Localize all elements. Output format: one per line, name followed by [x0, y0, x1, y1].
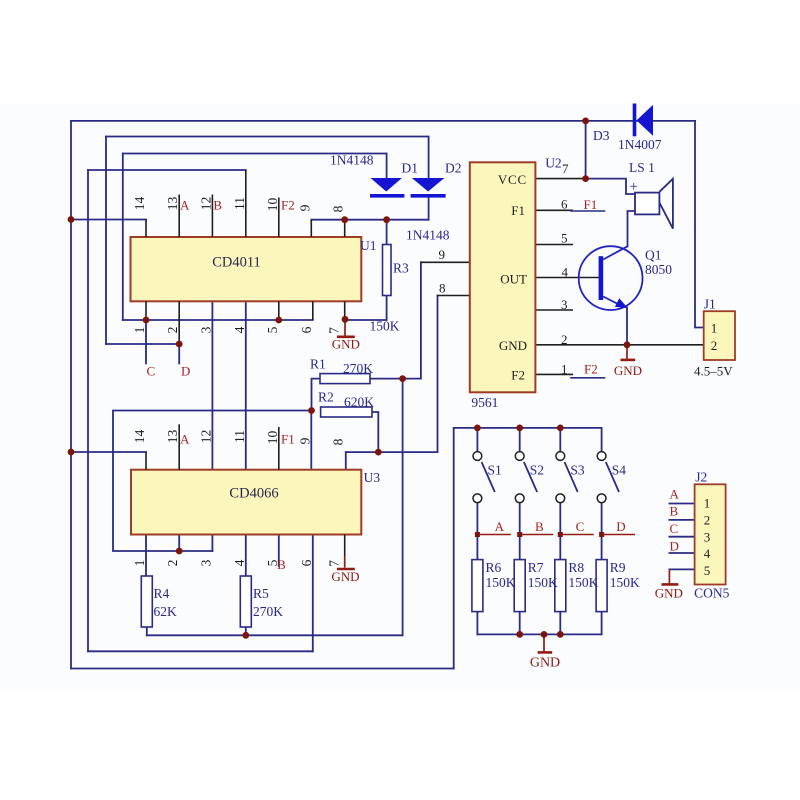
svg-text:GND: GND — [331, 569, 359, 584]
svg-text:150K: 150K — [370, 319, 400, 334]
svg-text:1N4007: 1N4007 — [618, 137, 662, 152]
wire R4-R5 bottom rail to U2pin9 net — [147, 634, 403, 636]
wire loop1 bottom horizontal — [71, 668, 454, 670]
svg-text:C: C — [670, 521, 679, 536]
svg-text:C: C — [576, 519, 585, 534]
ground symbol at U3 pin7 — [337, 556, 355, 569]
svg-text:D: D — [616, 519, 625, 534]
wire loop2 top horizontal to D2 — [106, 137, 429, 178]
wire loop1 top horizontal — [71, 120, 695, 122]
svg-text:GND: GND — [655, 586, 683, 601]
svg-text:8: 8 — [439, 281, 446, 296]
wire Q1 emitter to ground line — [626, 308, 628, 345]
U1 pin 6 stub — [312, 301, 314, 320]
U1 pin 9 stub — [310, 220, 312, 237]
svg-text:4.5–5V: 4.5–5V — [694, 364, 733, 379]
IC U1 CD4011 body — [131, 237, 362, 301]
resistor R4 62K body — [141, 576, 152, 627]
wire loop1 riser to switch rail — [453, 428, 455, 669]
svg-text:62K: 62K — [154, 604, 178, 619]
wire loop3 top horizontal to D1 — [123, 154, 387, 178]
svg-text:R9: R9 — [610, 560, 626, 575]
svg-text:D: D — [670, 538, 679, 553]
diode D2 1N4148 — [411, 178, 446, 196]
wire loop3 vertical — [122, 154, 124, 321]
wire loop2 vertical — [105, 137, 107, 345]
wire R8 bottom lead — [559, 612, 561, 635]
wire CD4066 pin3 stub — [211, 535, 213, 552]
switch S3 — [556, 452, 578, 503]
svg-text:3: 3 — [704, 529, 711, 544]
wire U2 pin7 line black part — [535, 178, 585, 180]
svg-text:F1: F1 — [281, 432, 295, 447]
connector J1 body — [704, 311, 735, 360]
svg-text:8: 8 — [331, 438, 346, 445]
svg-text:R8: R8 — [568, 560, 584, 575]
wire R6 bottom lead — [476, 612, 478, 635]
svg-text:13: 13 — [165, 430, 180, 444]
svg-text:4: 4 — [704, 546, 711, 561]
svg-text:150K: 150K — [528, 575, 558, 590]
svg-text:F2: F2 — [511, 367, 525, 382]
svg-text:2: 2 — [561, 332, 568, 347]
resistor R5 270K body — [240, 576, 251, 627]
wire R7 bottom lead — [519, 612, 521, 635]
U1 pin 8 stub — [344, 220, 346, 237]
wire S2 bottom to R7 — [519, 503, 521, 560]
wire speaker minus to Q1 collector — [628, 211, 636, 246]
wire switch top rail — [454, 427, 602, 429]
node U1 pin2 loop2 — [176, 341, 183, 348]
svg-text:J2: J2 — [695, 470, 707, 485]
svg-text:270K: 270K — [343, 361, 373, 376]
resistor R9 150K body — [596, 560, 607, 612]
svg-text:A: A — [670, 487, 680, 502]
svg-text:R5: R5 — [253, 586, 269, 601]
svg-text:B: B — [535, 519, 544, 534]
node U1 pin5 on rail — [275, 317, 282, 324]
wire R5 bottom lead — [245, 627, 247, 635]
svg-text:3: 3 — [198, 559, 213, 566]
svg-text:1N4148: 1N4148 — [330, 153, 374, 168]
wire loop1 left vertical (VCC net) — [70, 121, 72, 669]
svg-text:150K: 150K — [486, 575, 516, 590]
svg-text:5: 5 — [561, 231, 568, 246]
wire CD4011 pin3 to CD4066 pin12 — [211, 301, 213, 469]
node S3 rail — [557, 425, 564, 432]
svg-text:A: A — [180, 432, 190, 447]
svg-text:7: 7 — [327, 327, 342, 334]
wire net label A underline — [477, 534, 510, 536]
svg-text:U1: U1 — [360, 238, 377, 253]
node R5 bottom — [242, 632, 249, 639]
wire R1 left lead — [312, 379, 321, 411]
svg-text:D: D — [181, 364, 190, 379]
wire J2 pin3 lead net C — [669, 536, 694, 538]
svg-text:CD4011: CD4011 — [212, 255, 261, 271]
U1 pin 13 stub — [178, 195, 180, 238]
U1 pin 14 stub — [145, 220, 147, 238]
wire loop2 bottom to CD4011 pin2 — [106, 344, 179, 364]
U3 pin 13 stub — [178, 424, 180, 469]
diode D1 1N4148 — [370, 178, 404, 196]
node label C attach — [558, 532, 563, 537]
wire S3 top stub — [559, 428, 561, 451]
wire CD4066 pin8 stub — [345, 452, 347, 470]
wire U2 pin1 line — [535, 373, 572, 375]
svg-text:9: 9 — [297, 437, 312, 444]
svg-text:OUT: OUT — [500, 271, 527, 286]
svg-text:11: 11 — [232, 197, 247, 210]
node label B attach — [517, 532, 522, 537]
svg-text:2: 2 — [165, 560, 180, 567]
svg-text:LS 1: LS 1 — [629, 160, 655, 175]
svg-text:U3: U3 — [364, 470, 381, 485]
node U1 pin7 GND R3 — [342, 316, 349, 323]
switch S1 — [473, 452, 495, 503]
resistor R2 620K body — [321, 407, 372, 417]
wire CD4066 pin9 stub — [310, 411, 312, 470]
svg-text:14: 14 — [132, 197, 147, 211]
wire U2 pin3 line — [535, 309, 572, 311]
U3 pin 14 stub — [145, 452, 147, 470]
svg-text:9: 9 — [439, 247, 446, 262]
svg-text:GND: GND — [614, 363, 642, 378]
wire R2 right lead — [372, 412, 378, 452]
wire U2 pin9 line — [421, 261, 470, 263]
node R2 right U3 pin8 — [375, 449, 382, 456]
node GND stub on resistor rail — [541, 631, 548, 638]
wire resistor bottom rail — [477, 633, 601, 635]
wire U2 pin4 line to Q1 base — [535, 277, 600, 279]
wire junction R2R to CD4066 pin8 and U2 pin8 riser — [346, 296, 438, 453]
svg-text:S1: S1 — [488, 463, 502, 478]
wire CD4066 pin5 stub node B — [278, 535, 280, 567]
svg-text:3: 3 — [198, 326, 213, 333]
svg-text:4: 4 — [562, 265, 569, 280]
svg-text:CON5: CON5 — [694, 586, 730, 601]
ground symbol at U1 pin7 — [337, 319, 355, 337]
wire loop3 bottom rail CD4011 pins 1-5-6 — [123, 319, 313, 321]
U1 pin 5 stub — [278, 301, 280, 320]
svg-text:6: 6 — [299, 326, 314, 333]
svg-text:8050: 8050 — [645, 262, 672, 277]
U1 pin 11 stub — [245, 170, 247, 237]
wire S4 bottom to R9 — [601, 503, 603, 560]
svg-text:R6: R6 — [486, 560, 502, 575]
svg-text:1: 1 — [132, 560, 147, 567]
node U1 pin1 on rail — [143, 317, 150, 324]
wire J2 pin5 lead to GND — [669, 568, 694, 570]
svg-text:10: 10 — [265, 198, 280, 212]
wire R1 right lead to U2 pin9 riser — [370, 262, 421, 378]
wire CD4066 pin4 to R5 — [245, 535, 247, 577]
wire D2 cathode drop — [428, 198, 430, 220]
node R1 right — [399, 375, 406, 382]
svg-text:2: 2 — [165, 327, 180, 334]
svg-text:12: 12 — [198, 197, 213, 211]
wire loop4 bottom horizontal to CD4066 pin6 — [88, 650, 313, 652]
svg-text:+: + — [630, 179, 638, 195]
U3 pin 7 stub — [344, 535, 346, 557]
svg-text:S2: S2 — [530, 463, 544, 478]
svg-text:S3: S3 — [570, 463, 585, 478]
transistor Q1 8050 — [579, 246, 643, 310]
wire R3 bottom lead to GND rail — [345, 296, 387, 321]
wire CD4011 pin1 below rail to node C — [145, 320, 147, 364]
svg-text:CD4066: CD4066 — [229, 486, 278, 502]
node D3 bottom on U2 pin7 — [582, 175, 589, 182]
node label D attach — [599, 532, 604, 537]
diode D3 1N4007 — [635, 104, 654, 137]
svg-text:GND: GND — [499, 338, 527, 353]
ground symbol at resistor rail — [538, 635, 553, 653]
svg-text:D1: D1 — [402, 161, 419, 176]
node U1 pin8 — [341, 216, 348, 223]
wire U2 pin6 line — [535, 209, 572, 211]
U3 pin 10 stub — [278, 427, 280, 470]
node D3 top — [582, 118, 589, 125]
wire node R1R down to R4-R5 rail — [402, 379, 404, 636]
svg-text:1: 1 — [704, 496, 711, 511]
wire U2 pin5 line — [535, 244, 572, 246]
svg-text:GND: GND — [332, 337, 360, 352]
svg-text:8: 8 — [331, 205, 346, 212]
wire net label B underline — [520, 534, 553, 536]
node S2 rail — [516, 425, 523, 432]
wire U2 pin2 GND line to J1 pin2 — [535, 344, 703, 346]
IC U2 9561 body — [470, 162, 536, 392]
svg-text:VCC: VCC — [498, 172, 527, 187]
svg-text:6: 6 — [299, 559, 314, 566]
svg-text:F2: F2 — [584, 362, 598, 377]
node R1 R2 left U3 pin9 — [308, 407, 315, 414]
wire CD4011 pin4 to CD4066 pin11 — [245, 301, 247, 469]
wire net label D underline — [602, 534, 635, 536]
U1 pin 7 stub — [344, 301, 346, 319]
node R7 bottom — [516, 631, 523, 638]
node VCC to U3 pin14 — [68, 449, 75, 456]
node U3 pin2 — [176, 548, 183, 555]
svg-text:6: 6 — [561, 197, 568, 212]
svg-text:5: 5 — [265, 326, 280, 333]
svg-text:1N4148: 1N4148 — [406, 228, 450, 243]
svg-text:A: A — [495, 519, 505, 534]
wire net label C underline — [560, 534, 593, 536]
wire S3 bottom to R8 — [559, 503, 561, 560]
wire VCC stub to CD4011 pin14 — [71, 219, 146, 221]
node D1 cathode — [383, 216, 390, 223]
resistor R6 150K body — [472, 560, 483, 612]
wire loop4 top horizontal to CD4011 pin11 — [88, 169, 246, 171]
wire F2 net label underline — [571, 377, 605, 379]
ground symbol at J2 pin5 — [662, 569, 679, 584]
wire J2 pin2 lead net B — [669, 519, 694, 521]
wire S4 top stub — [601, 428, 603, 451]
switch S2 — [515, 452, 537, 503]
svg-text:14: 14 — [132, 430, 147, 444]
svg-text:F1: F1 — [584, 197, 598, 212]
svg-text:12: 12 — [198, 430, 213, 444]
svg-text:B: B — [670, 503, 679, 518]
svg-text:R1: R1 — [310, 357, 326, 372]
svg-text:R4: R4 — [154, 586, 170, 601]
svg-text:B: B — [213, 198, 222, 213]
svg-text:5: 5 — [704, 563, 711, 578]
U1 pin 10 stub — [278, 198, 280, 238]
wire CD4066 pin2 stub — [178, 535, 180, 552]
node VCC to U1 pin14 — [68, 216, 75, 223]
svg-text:GND: GND — [530, 656, 560, 671]
resistor R3 150K body — [383, 245, 392, 296]
wire J2 pin4 lead net D — [669, 552, 694, 554]
wire CD4011 pins 9-8 to D1 D2 cathodes — [311, 219, 428, 221]
wire S1 top stub — [476, 428, 478, 451]
svg-text:4: 4 — [232, 559, 247, 566]
svg-text:D3: D3 — [593, 128, 610, 143]
node R8 bottom — [557, 631, 564, 638]
wire R2 left junction rail to CD4066 pins2-3 — [113, 411, 312, 552]
node label A attach — [475, 532, 480, 537]
svg-text:R3: R3 — [393, 261, 409, 276]
svg-text:F1: F1 — [511, 203, 525, 218]
svg-text:4: 4 — [232, 326, 247, 333]
wire S2 top stub — [519, 428, 521, 451]
svg-text:C: C — [147, 364, 156, 379]
wire R4 bottom lead — [146, 627, 148, 635]
IC U3 CD4066 body — [131, 470, 361, 535]
speaker LS1 — [635, 179, 673, 229]
svg-text:7: 7 — [562, 161, 569, 176]
ground symbol at Q1 emitter / U2 pin2 — [621, 345, 636, 360]
svg-text:9561: 9561 — [471, 395, 498, 410]
connector J2 body — [695, 484, 726, 584]
svg-text:11: 11 — [232, 430, 247, 443]
svg-text:13: 13 — [165, 197, 180, 211]
svg-text:S4: S4 — [612, 463, 627, 478]
resistor R8 150K body — [555, 560, 566, 612]
svg-text:2: 2 — [704, 512, 711, 527]
svg-text:1: 1 — [561, 362, 568, 377]
U1 pin 2 stub to node D — [178, 301, 180, 344]
wire loop4 vertical — [87, 170, 89, 651]
svg-text:R7: R7 — [528, 560, 544, 575]
U1 pin 1 stub — [145, 301, 147, 320]
svg-text:U2: U2 — [545, 156, 562, 171]
svg-text:D2: D2 — [445, 161, 462, 176]
resistor R1 270K body — [320, 374, 370, 384]
wire CD4066 pin6 drop to loop4 — [312, 535, 314, 652]
svg-text:2: 2 — [711, 338, 718, 353]
svg-text:J1: J1 — [704, 297, 716, 312]
U1 pin 12 stub — [211, 195, 213, 238]
svg-text:150K: 150K — [568, 575, 598, 590]
wire R9 bottom lead — [601, 612, 603, 635]
svg-text:R2: R2 — [318, 390, 334, 405]
svg-text:B: B — [277, 557, 286, 572]
svg-text:A: A — [180, 198, 190, 213]
wire J2 pin1 lead net A — [669, 503, 694, 505]
wire CD4066 pin1 to R4 — [145, 535, 147, 577]
svg-text:7: 7 — [327, 560, 342, 567]
wire F1 net label underline — [571, 210, 605, 212]
svg-text:270K: 270K — [253, 604, 283, 619]
wire S1 bottom to R6 — [476, 503, 478, 560]
svg-text:620K: 620K — [344, 395, 374, 410]
node Q1 emitter GND — [624, 341, 631, 348]
wire U2 pin7 to speaker plus — [586, 179, 635, 194]
svg-text:9: 9 — [297, 204, 312, 211]
svg-text:1: 1 — [132, 327, 147, 334]
wire R3 top lead from D1 node — [386, 220, 388, 245]
svg-text:10: 10 — [265, 431, 280, 445]
wire right side power drop to J1 pin1 — [695, 121, 704, 328]
svg-text:150K: 150K — [610, 575, 640, 590]
svg-text:F2: F2 — [281, 198, 295, 213]
wire VCC stub to CD4066 pin14 — [71, 451, 146, 453]
resistor R7 150K body — [514, 560, 525, 612]
node S1 rail — [474, 425, 481, 432]
svg-text:3: 3 — [561, 297, 568, 312]
svg-text:Q1: Q1 — [645, 248, 662, 263]
switch S4 — [597, 452, 619, 503]
wire D3 branch vertical to U2 pin7 line — [585, 121, 587, 179]
wire U2 pin8 line — [438, 295, 471, 297]
svg-text:1: 1 — [711, 321, 718, 336]
